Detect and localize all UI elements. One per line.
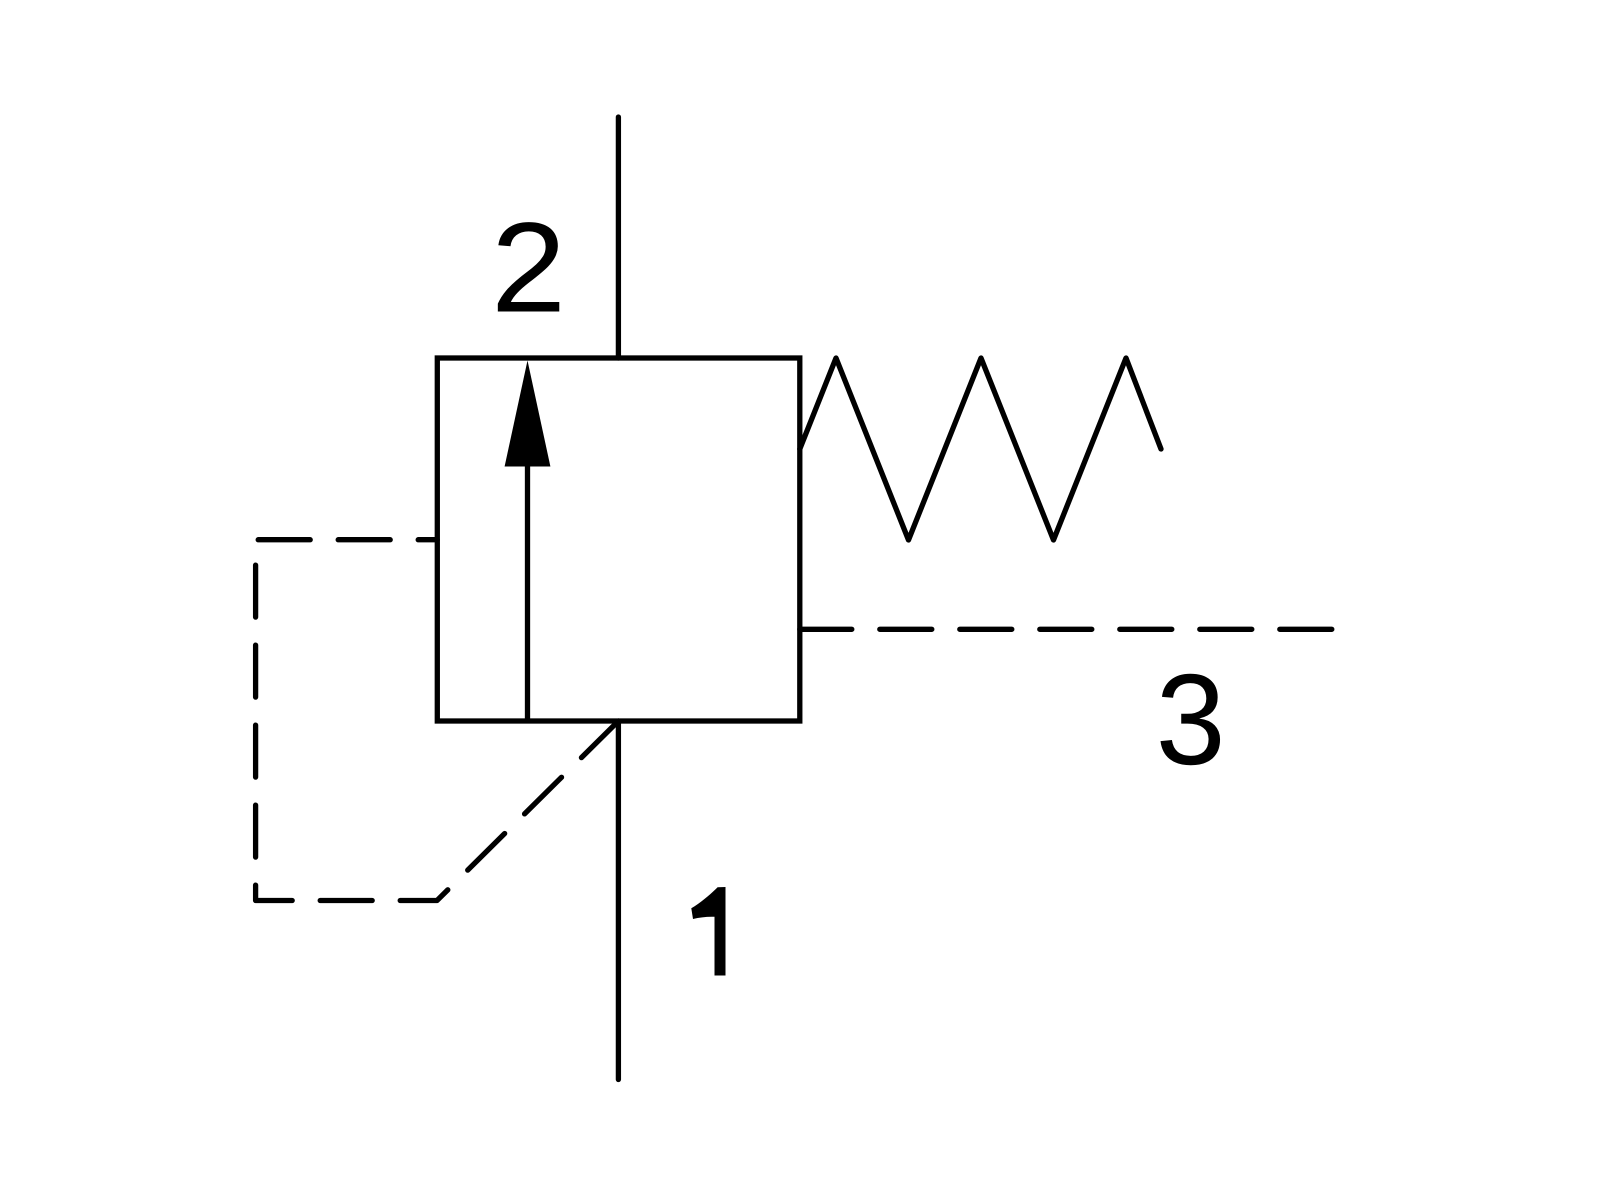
wire port 2 (top vertical line) bbox=[616, 117, 621, 358]
valve body (pressure-regulator square) bbox=[437, 358, 800, 721]
pilot feedback line (dashed loop from port 1 to left side of body) bbox=[256, 540, 619, 901]
port label 1 bbox=[691, 887, 725, 976]
flow arrow shaft bbox=[525, 462, 530, 719]
svg-text:2: 2 bbox=[491, 196, 566, 339]
svg-text:3: 3 bbox=[1156, 647, 1226, 791]
wire port 1 (bottom vertical line) bbox=[616, 721, 621, 1080]
flow arrow head bbox=[505, 361, 551, 467]
spring bbox=[800, 358, 1161, 540]
pilot line port 3 (dashed, right) bbox=[800, 627, 1332, 632]
